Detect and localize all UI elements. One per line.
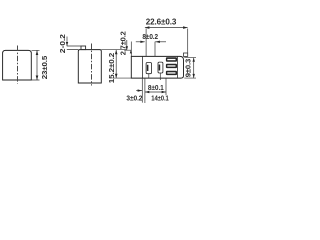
svg-text:9±0.3: 9±0.3 — [185, 59, 192, 78]
terminal slot B outline — [158, 62, 163, 73]
centerline (side view) — [91, 44, 93, 86]
svg-text:2-0.2: 2-0.2 — [60, 34, 67, 53]
terminal B centre tick — [159, 73, 161, 80]
extension lines for 23 dim — [32, 50, 40, 80]
dim 3±0.2 arrow — [136, 90, 142, 92]
svg-text:23±0.5: 23±0.5 — [40, 56, 49, 80]
mounting tab (side view) — [81, 46, 86, 50]
svg-text:8±0.2: 8±0.2 — [142, 34, 158, 41]
extension 15.2 top — [101, 49, 127, 51]
svg-text:15.2±0.2: 15.2±0.2 — [109, 53, 116, 84]
inner moulding line right — [176, 56, 178, 78]
extension 9 top / bottom — [184, 58, 196, 79]
centerline (front view) — [17, 46, 19, 84]
inner moulding line — [141, 56, 143, 78]
extension 15.2 bottom — [113, 77, 132, 79]
svg-text:8±0.1: 8±0.1 — [148, 85, 164, 92]
extension lines for 2-0.2 dim — [67, 46, 81, 50]
svg-text:14±0.1: 14±0.1 — [151, 96, 169, 103]
side tab (top right) — [184, 53, 188, 56]
extension 22.6 right — [187, 29, 189, 53]
terminal A centre tick — [148, 74, 150, 78]
extension 22.6 left — [145, 29, 147, 57]
relay body side outline — [78, 50, 101, 83]
terminal slot C3 — [166, 71, 177, 75]
dimension line 23 — [36, 51, 38, 81]
terminal A blade — [147, 65, 149, 71]
svg-text:22.6±0.3: 22.6±0.3 — [146, 18, 177, 27]
bottom extension lines — [142, 78, 166, 103]
svg-text:3±0.2: 3±0.2 — [126, 96, 142, 103]
dimension line 2-0.2 — [66, 37, 68, 47]
terminal slot C1 — [166, 57, 177, 61]
terminal slot C2 — [166, 64, 177, 68]
terminal slot A outline — [146, 63, 151, 74]
terminal B blade — [159, 65, 161, 71]
relay base bottom outline — [131, 56, 183, 78]
arrow on left edge (2.7 upper ref) — [130, 42, 132, 57]
relay body front outline — [3, 50, 32, 80]
